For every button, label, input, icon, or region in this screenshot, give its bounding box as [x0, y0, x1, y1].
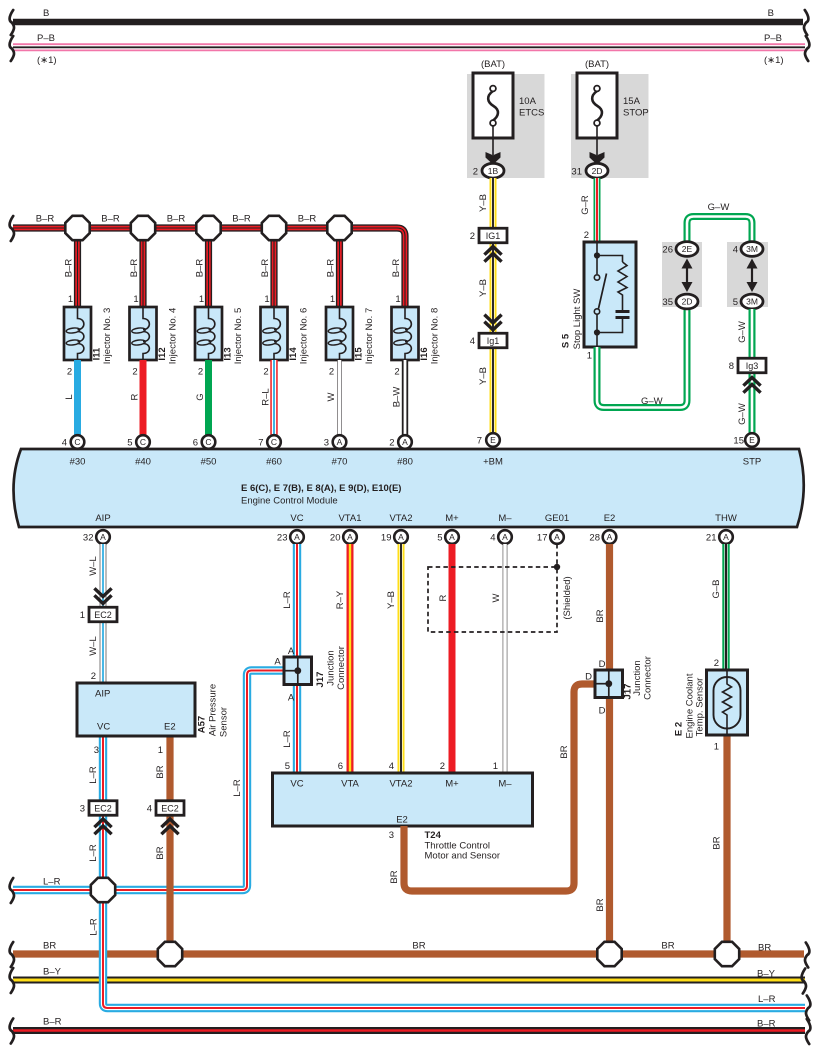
svg-text:3M: 3M — [746, 297, 758, 307]
junction octagon injector bus 1 — [65, 216, 89, 240]
svg-text:1: 1 — [264, 294, 269, 305]
junction octagon L-R bus — [91, 878, 115, 902]
svg-text:Injector No. 3: Injector No. 3 — [102, 308, 113, 365]
svg-text:Injector No. 8: Injector No. 8 — [430, 308, 441, 365]
connector pair 3M/3M gray background — [727, 242, 768, 307]
air pressure sensor A57 body — [77, 683, 195, 736]
svg-text:L: L — [64, 394, 75, 399]
svg-text:1: 1 — [330, 294, 335, 305]
svg-text:3: 3 — [80, 804, 85, 815]
wire continuation brace B-R bottom left — [10, 1019, 14, 1044]
wire L-R from A57 VC pin 3 down to junction octagon — [99, 736, 107, 890]
svg-text:A: A — [294, 532, 300, 542]
svg-text:B–R: B–R — [232, 214, 251, 225]
svg-text:G–B: G–B — [711, 579, 722, 598]
junction octagon injector bus 4 — [262, 216, 286, 240]
svg-text:BR: BR — [155, 846, 166, 859]
svg-text:L–R: L–R — [43, 877, 61, 888]
svg-text:A: A — [288, 693, 295, 704]
wire B-R drop to injector No. 3 — [74, 228, 81, 307]
junction box Ig3 pin 8 — [729, 358, 766, 373]
svg-text:2: 2 — [584, 230, 589, 241]
svg-text:#60: #60 — [266, 457, 282, 468]
svg-text:2: 2 — [263, 367, 268, 378]
svg-text:4: 4 — [733, 245, 738, 256]
svg-text:M–: M– — [498, 779, 512, 790]
wire B-R drop to injector No. 4 — [139, 228, 146, 307]
wire B–W injector 8 to ECM — [402, 360, 408, 435]
injector I12 coil — [131, 307, 149, 360]
injector I15 coil — [328, 307, 346, 360]
svg-text:B–R: B–R — [167, 214, 186, 225]
svg-text:M+: M+ — [445, 513, 459, 524]
ECM pin 17 circle A (GE01) — [550, 530, 564, 544]
svg-text:A57: A57 — [197, 716, 208, 733]
connector chevron below EC2 4 — [161, 819, 178, 834]
svg-text:1: 1 — [80, 610, 85, 621]
ECM pin 21 circle A (THW) — [719, 530, 733, 544]
svg-text:Engine Control Module: Engine Control Module — [241, 496, 338, 507]
fuse 10A ETCS body — [473, 73, 513, 138]
svg-text:Injector No. 4: Injector No. 4 — [168, 308, 179, 365]
svg-text:G: G — [195, 393, 206, 400]
wire G-W loop from 2E up over to 3M — [687, 217, 752, 243]
svg-text:Ig1: Ig1 — [487, 336, 500, 346]
shield drain dashed wire from GE01 pin 17 — [556, 544, 558, 567]
throttle control motor T24 body — [273, 773, 533, 826]
svg-text:EC2: EC2 — [94, 610, 112, 620]
svg-text:Junction: Junction — [326, 650, 337, 685]
fuse 15A STOP gray background — [571, 74, 649, 178]
injector I11 coil — [66, 307, 84, 360]
svg-text:(∗1): (∗1) — [764, 55, 784, 66]
svg-text:32: 32 — [83, 533, 94, 544]
junction connector J17 (D) body — [595, 670, 623, 698]
svg-text:A: A — [502, 532, 508, 542]
svg-text:B–R: B–R — [326, 259, 337, 278]
svg-text:1: 1 — [133, 294, 138, 305]
svg-text:E2: E2 — [604, 513, 616, 524]
wire continuation brace BR right — [805, 943, 809, 968]
svg-text:P–B: P–B — [764, 33, 782, 44]
engine coolant temp sensor E2 body — [707, 670, 748, 735]
svg-text:A: A — [607, 532, 613, 542]
connector oval 3M pin 5 — [741, 294, 763, 309]
svg-text:B: B — [43, 8, 49, 19]
junction octagon injector bus 3 — [196, 216, 220, 240]
svg-text:2: 2 — [91, 671, 96, 682]
ECM pin 4 circle A (M–) — [498, 530, 512, 544]
svg-text:3: 3 — [324, 438, 329, 449]
svg-text:#50: #50 — [201, 457, 217, 468]
svg-text:1B: 1B — [488, 166, 499, 176]
svg-text:E2: E2 — [396, 815, 408, 826]
stop light switch internal circuit — [594, 242, 630, 347]
svg-text:(BAT): (BAT) — [585, 59, 609, 70]
fuse 15A STOP connector arrow — [590, 152, 605, 165]
stop light switch S5 body — [584, 242, 636, 347]
ECM pin 5 circle C (inj 4) — [136, 435, 150, 449]
svg-text:VTA2: VTA2 — [389, 779, 412, 790]
svg-text:3: 3 — [389, 830, 394, 841]
svg-text:Sensor: Sensor — [219, 707, 230, 737]
svg-text:A: A — [347, 532, 353, 542]
svg-text:2: 2 — [389, 438, 394, 449]
svg-text:26: 26 — [662, 245, 673, 256]
svg-text:BR: BR — [155, 765, 166, 778]
injector I13 coil — [197, 307, 215, 360]
wire B-R drop to injector No. 6 — [270, 228, 277, 307]
svg-text:Motor and Sensor: Motor and Sensor — [425, 851, 501, 862]
svg-text:#70: #70 — [332, 457, 348, 468]
injector I12 (Injector No. 4) body — [130, 307, 157, 360]
wire continuation brace BR left — [10, 942, 14, 967]
svg-text:R–Y: R–Y — [335, 590, 346, 609]
svg-text:R: R — [130, 393, 141, 400]
svg-text:6: 6 — [193, 438, 198, 449]
shield dashed enclosure — [428, 567, 557, 632]
fuse 10A ETCS lead wire — [492, 126, 494, 155]
junction octagon injector bus 5 — [327, 216, 351, 240]
connector chevron below EC2 3 — [94, 819, 111, 834]
junction connector J17 (A) body — [284, 657, 312, 685]
svg-text:R: R — [438, 594, 449, 601]
shield junction dot — [554, 564, 560, 570]
wire G-W from 3M(5) to STP — [749, 309, 756, 433]
svg-text:B–R: B–R — [101, 214, 120, 225]
svg-text:7: 7 — [477, 436, 482, 447]
svg-text:STOP: STOP — [623, 108, 649, 119]
svg-text:B–R: B–R — [36, 214, 55, 225]
svg-text:E2: E2 — [164, 722, 176, 733]
svg-text:Y–B: Y–B — [478, 367, 489, 385]
svg-text:#30: #30 — [70, 457, 86, 468]
svg-text:10A: 10A — [519, 96, 537, 107]
svg-text:W: W — [326, 392, 337, 401]
svg-text:I14: I14 — [288, 347, 299, 361]
wire continuation brace B-Y left — [10, 968, 14, 993]
injector I16 (Injector No. 8) body — [392, 307, 419, 360]
svg-text:4: 4 — [490, 533, 495, 544]
svg-text:31: 31 — [571, 166, 582, 177]
svg-text:B–R: B–R — [195, 259, 206, 278]
wire B-R injector bus — [13, 228, 405, 307]
wire W injector 7 to ECM — [337, 360, 342, 435]
svg-text:VC: VC — [290, 779, 303, 790]
svg-text:B–R: B–R — [757, 1019, 776, 1030]
svg-text:E 6(C), E 7(B), E 8(A), E 9(D): E 6(C), E 7(B), E 8(A), E 9(D), E10(E) — [241, 483, 401, 494]
svg-text:Connector: Connector — [643, 656, 654, 700]
injector I13 (Injector No. 5) body — [195, 307, 222, 360]
svg-text:3: 3 — [94, 745, 99, 756]
wire continuation brace B-R bus left — [10, 216, 14, 241]
svg-text:M–: M– — [498, 513, 512, 524]
svg-text:2: 2 — [473, 166, 478, 177]
fuse 10A ETCS gray background — [467, 74, 545, 178]
connector chevron below Ig3 — [743, 378, 760, 393]
svg-text:5: 5 — [437, 533, 442, 544]
svg-text:Y–B: Y–B — [386, 591, 397, 609]
svg-text:#80: #80 — [397, 457, 413, 468]
ECM pin 4 circle C (inj 3) — [71, 435, 85, 449]
svg-text:A: A — [398, 532, 404, 542]
wire G-B from ECM THW pin 21 to coolant sensor pin 2 — [722, 544, 729, 670]
svg-text:L–R: L–R — [758, 994, 776, 1005]
wire L-R from octagon down to bottom L-R bus — [103, 890, 805, 1008]
svg-text:BR: BR — [712, 836, 723, 849]
svg-text:W–L: W–L — [88, 556, 99, 576]
svg-text:M+: M+ — [445, 779, 459, 790]
svg-text:5: 5 — [733, 297, 738, 308]
svg-text:G–W: G–W — [708, 202, 730, 213]
wire B-R drop to injector No. 7 — [336, 228, 343, 307]
injector I15 (Injector No. 7) body — [326, 307, 353, 360]
svg-text:Stop Light SW: Stop Light SW — [572, 289, 583, 350]
junction octagon injector bus 2 — [131, 216, 155, 240]
svg-text:BR: BR — [559, 745, 570, 758]
svg-text:A: A — [449, 532, 455, 542]
svg-text:2: 2 — [329, 367, 334, 378]
svg-text:A: A — [337, 437, 343, 447]
svg-text:A: A — [723, 532, 729, 542]
fuse 10A ETCS element — [488, 86, 498, 126]
svg-text:2: 2 — [132, 367, 137, 378]
connector oval 2D pin 31 — [586, 163, 608, 178]
svg-text:G–W: G–W — [737, 403, 748, 425]
svg-text:3M: 3M — [746, 244, 758, 254]
wire B-Y bus — [13, 977, 805, 984]
ECM pin 7 circle E (+BM) — [486, 433, 500, 447]
svg-text:BR: BR — [661, 941, 674, 952]
wire Y-B from fuse 1B to +BM — [490, 178, 497, 433]
ECM pin 7 circle C (inj 6) — [267, 435, 281, 449]
svg-text:4: 4 — [389, 761, 394, 772]
connector chevron below IG1 — [484, 247, 501, 262]
svg-text:A: A — [274, 657, 281, 668]
wire continuation brace P-B left — [10, 36, 14, 61]
injector I14 coil — [262, 307, 280, 360]
svg-text:G–R: G–R — [580, 195, 591, 215]
svg-text:1: 1 — [68, 294, 73, 305]
connector chevron above EC2 1 — [94, 588, 111, 603]
junction octagon BR/E2 riser — [597, 942, 621, 966]
svg-text:20: 20 — [330, 533, 341, 544]
svg-text:5: 5 — [127, 438, 132, 449]
svg-text:Injector No. 6: Injector No. 6 — [299, 308, 310, 365]
wire R-Y from ECM VTA1 pin 20 to T24 pin 6 — [347, 544, 354, 773]
svg-text:2: 2 — [394, 367, 399, 378]
svg-text:AIP: AIP — [95, 689, 110, 700]
svg-text:15A: 15A — [623, 96, 641, 107]
svg-text:B–Y: B–Y — [43, 967, 62, 978]
svg-text:B–R: B–R — [129, 259, 140, 278]
svg-text:(∗1): (∗1) — [37, 55, 57, 66]
injector I16 coil — [393, 307, 411, 360]
svg-text:VTA: VTA — [341, 779, 359, 790]
wire continuation brace B right — [804, 10, 808, 35]
svg-text:Connector: Connector — [336, 646, 347, 690]
svg-text:B–R: B–R — [64, 259, 75, 278]
wire BR from ECM E2 pin 28 to BR bus — [606, 544, 613, 954]
svg-text:A: A — [402, 437, 408, 447]
wire G-W from stop light switch pin 1 to connector 2D(35) — [597, 309, 687, 408]
ECM pin 19 circle A (VTA2) — [394, 530, 408, 544]
svg-text:2E: 2E — [682, 244, 693, 254]
svg-text:BR: BR — [595, 609, 606, 622]
svg-text:D: D — [599, 706, 606, 717]
svg-text:VC: VC — [290, 513, 303, 524]
svg-text:2D: 2D — [592, 166, 603, 176]
svg-text:A: A — [288, 646, 295, 657]
svg-text:VTA2: VTA2 — [389, 513, 412, 524]
svg-text:Air Pressure: Air Pressure — [208, 684, 219, 736]
wire W from ECM M- pin 4 to T24 pin 1 — [503, 544, 508, 773]
ECM pin 23 circle A (VC) — [290, 530, 304, 544]
wire B bus (top black) — [13, 19, 803, 26]
wire BR from T24 pin 3 to J17 (D) — [404, 684, 595, 891]
svg-text:21: 21 — [706, 533, 717, 544]
svg-text:BR: BR — [595, 898, 606, 911]
svg-text:1: 1 — [158, 745, 163, 756]
svg-text:I13: I13 — [223, 347, 234, 360]
svg-text:28: 28 — [589, 533, 600, 544]
svg-text:4: 4 — [147, 804, 152, 815]
svg-text:L–R: L–R — [282, 730, 293, 748]
svg-text:8: 8 — [729, 361, 734, 372]
wire L-R from ECM VC pin 23 to T24 pin 5 — [293, 544, 301, 773]
svg-text:L–R: L–R — [89, 918, 100, 936]
svg-text:ETCS: ETCS — [519, 108, 544, 119]
ECM pin 5 circle A (M+) — [445, 530, 459, 544]
svg-text:E: E — [749, 435, 755, 445]
svg-text:Injector No. 7: Injector No. 7 — [364, 308, 375, 365]
svg-text:2: 2 — [198, 367, 203, 378]
svg-text:C: C — [271, 437, 277, 447]
svg-text:(BAT): (BAT) — [481, 59, 505, 70]
svg-text:E: E — [490, 435, 496, 445]
junction box EC2 pin 4 — [147, 801, 184, 816]
svg-text:1: 1 — [395, 294, 400, 305]
svg-text:17: 17 — [537, 533, 548, 544]
svg-text:B–R: B–R — [391, 259, 402, 278]
wire Y-B from ECM VTA2 pin 19 to T24 pin 4 — [398, 544, 405, 773]
ECM pin 20 circle A (VTA1) — [343, 530, 357, 544]
svg-text:P–B: P–B — [37, 33, 55, 44]
svg-text:Temp. Sensor: Temp. Sensor — [695, 678, 706, 737]
junction box IG1 pin 2 — [470, 228, 507, 243]
svg-text:D: D — [585, 672, 592, 683]
wire continuation brace B-Y right — [802, 969, 806, 994]
svg-text:C: C — [74, 437, 80, 447]
svg-text:1: 1 — [714, 742, 719, 753]
svg-text:1: 1 — [199, 294, 204, 305]
fuse 10A ETCS connector arrow — [486, 152, 501, 165]
svg-text:Junction: Junction — [632, 660, 643, 695]
svg-text:B–R: B–R — [43, 1017, 62, 1028]
svg-text:I12: I12 — [157, 347, 168, 360]
svg-text:5: 5 — [285, 761, 290, 772]
wire BR from A57 E2 pin 1 down to BR bus — [166, 736, 173, 954]
wire P-B bus — [13, 43, 805, 51]
wire L injector 3 to ECM — [74, 360, 81, 435]
connector pair 2E/2D gray background — [662, 242, 702, 307]
wire R from ECM M+ pin 5 to T24 pin 2 — [449, 544, 456, 773]
svg-text:(Shielded): (Shielded) — [562, 576, 573, 619]
svg-text:7: 7 — [258, 438, 263, 449]
wire continuation brace L-R left — [10, 878, 14, 903]
svg-text:AIP: AIP — [95, 513, 110, 524]
fuse 15A STOP body — [577, 73, 617, 138]
svg-text:BR: BR — [389, 870, 400, 883]
svg-text:EC2: EC2 — [94, 803, 112, 813]
svg-text:T24: T24 — [425, 830, 442, 841]
svg-text:E 2: E 2 — [674, 722, 685, 736]
svg-text:STP: STP — [743, 457, 761, 468]
svg-text:BR: BR — [758, 943, 771, 954]
wire B-R bus bottom — [13, 1027, 805, 1034]
wire continuation brace B left — [10, 10, 14, 35]
svg-text:1: 1 — [493, 761, 498, 772]
svg-text:4: 4 — [470, 336, 475, 347]
svg-text:S 5: S 5 — [561, 333, 572, 348]
svg-text:B–W: B–W — [392, 387, 403, 408]
svg-text:THW: THW — [715, 513, 737, 524]
injector I14 (Injector No. 6) body — [261, 307, 288, 360]
svg-text:B: B — [768, 8, 774, 19]
junction box EC2 pin 1 — [80, 607, 117, 622]
svg-text:Y–B: Y–B — [478, 279, 489, 297]
svg-text:L–R: L–R — [232, 779, 243, 797]
ECM pin 32 circle A (AIP) — [96, 530, 110, 544]
svg-text:Y–B: Y–B — [478, 194, 489, 212]
svg-text:G–W: G–W — [737, 321, 748, 343]
svg-text:2: 2 — [714, 658, 719, 669]
svg-text:I16: I16 — [419, 347, 430, 360]
junction octagon BR/EC2 riser — [158, 942, 182, 966]
wire B-R drop to injector No. 5 — [205, 228, 212, 307]
svg-text:W: W — [491, 593, 502, 602]
svg-text:W–L: W–L — [88, 636, 99, 656]
svg-text:GE01: GE01 — [545, 513, 569, 524]
ECM pin 28 circle A (E2) — [603, 530, 617, 544]
svg-text:L–R: L–R — [282, 591, 293, 609]
svg-text:Injector No. 5: Injector No. 5 — [233, 308, 244, 365]
svg-text:#40: #40 — [135, 457, 151, 468]
svg-text:BR: BR — [412, 941, 425, 952]
junction box EC2 pin 3 — [80, 801, 117, 816]
connector oval 2D pin 35 — [676, 294, 698, 309]
svg-text:B–R: B–R — [260, 259, 271, 278]
double arrow between 2E and 2D — [682, 259, 693, 293]
connector oval 1B pin 2 — [482, 163, 504, 178]
connector oval 2E pin 26 — [676, 242, 698, 257]
fuse 15A STOP element — [592, 86, 602, 126]
svg-text:D: D — [599, 659, 606, 670]
svg-text:2: 2 — [470, 231, 475, 242]
svg-text:35: 35 — [662, 297, 673, 308]
ECM pin 2 circle A (inj 8) — [398, 435, 412, 449]
injector I11 (Injector No. 3) body — [64, 307, 91, 360]
wire G injector 5 to ECM — [205, 360, 212, 435]
svg-text:J17: J17 — [315, 672, 326, 688]
wire continuation brace L-R bottom right — [806, 996, 810, 1021]
svg-text:L–R: L–R — [88, 844, 99, 862]
svg-text:6: 6 — [338, 761, 343, 772]
svg-text:A: A — [100, 532, 106, 542]
svg-text:19: 19 — [381, 533, 392, 544]
svg-text:G–W: G–W — [641, 396, 663, 407]
junction box Ig1 pin 4 — [470, 333, 507, 348]
